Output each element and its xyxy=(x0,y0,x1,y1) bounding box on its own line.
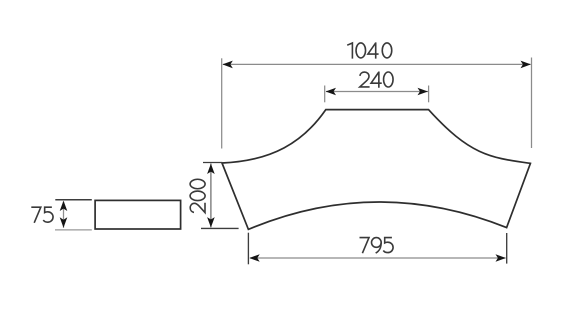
extension line 1040 left xyxy=(221,58,223,148)
dimension line 795 xyxy=(250,257,506,259)
extension line 75 bottom xyxy=(55,229,92,231)
extension line 1040 right xyxy=(531,58,533,149)
extension tick 200 bottom xyxy=(201,227,239,229)
valance front outline (flat 240 top, concave shoulders, arched bottom) xyxy=(222,110,530,230)
extension tick 240 left xyxy=(324,86,326,103)
dimension line 240 xyxy=(326,91,428,93)
arrowhead 75 top xyxy=(60,201,68,211)
label 795 xyxy=(360,238,394,254)
arrowhead 240 right xyxy=(418,88,428,96)
arrowhead 1040 left xyxy=(222,61,232,69)
arrowhead 200 bottom xyxy=(207,217,215,227)
label 75 xyxy=(31,207,53,223)
arrowhead 200 top xyxy=(207,164,215,174)
dimension line 75 xyxy=(63,202,65,228)
extension line 795 right xyxy=(506,233,508,264)
extension tick 240 right xyxy=(428,86,430,103)
label 1040 xyxy=(347,42,392,58)
label 240 xyxy=(360,72,393,88)
arrowhead 795 left xyxy=(249,254,259,262)
dimension line 200 xyxy=(210,164,212,228)
arrowhead 1040 right xyxy=(521,61,531,69)
arrowhead 795 right xyxy=(496,254,506,262)
side-profile rectangle (75 deep board section) xyxy=(95,200,181,229)
label 200 (rotated) xyxy=(190,179,205,212)
extension line 795 left xyxy=(247,233,249,265)
arrowhead 240 left xyxy=(326,88,336,96)
arrowhead 75 bottom xyxy=(60,217,68,227)
dimension line 1040 xyxy=(223,63,531,65)
extension line 75 top xyxy=(55,199,92,201)
extension tick 200 top xyxy=(203,162,222,164)
